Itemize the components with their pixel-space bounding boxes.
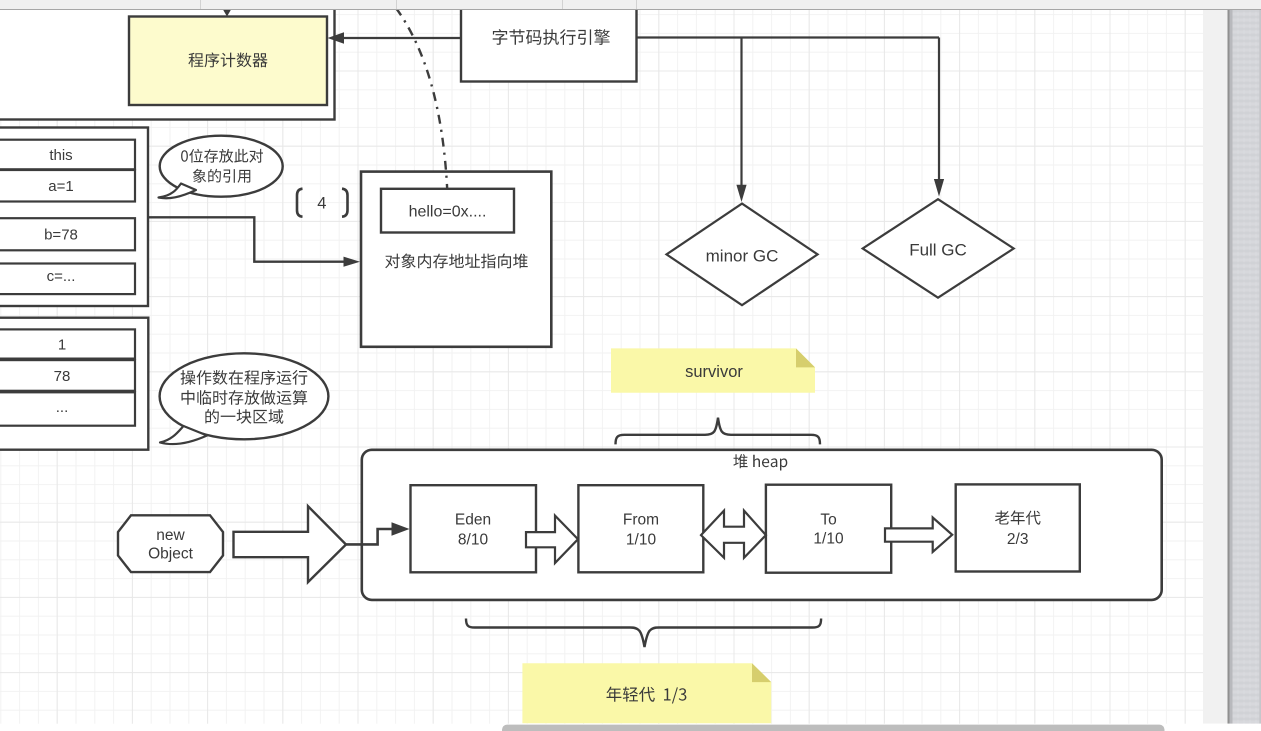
svg-text:b=78: b=78 — [44, 227, 78, 244]
svg-text:survivor: survivor — [685, 363, 743, 381]
svg-text:new: new — [156, 527, 185, 544]
svg-text:4: 4 — [317, 195, 326, 213]
object box 对象内存地址指向堆 — [361, 172, 551, 347]
wire: local variable b to object box (arrow right) — [148, 217, 361, 266]
svg-text:2/3: 2/3 — [1007, 531, 1029, 548]
svg-text:minor GC: minor GC — [706, 247, 779, 266]
svg-text:1/10: 1/10 — [626, 532, 657, 549]
stack frame outer box (top-left, partially off-screen) — [0, 0, 335, 120]
arrow from above into program counter box — [222, 0, 232, 17]
row this — [0, 140, 135, 170]
svg-text:8/10: 8/10 — [458, 532, 489, 549]
Eden box — [411, 485, 537, 572]
bottom horizontal scrollbar thumb — [502, 725, 1165, 731]
wire: bytecode engine right branch to GC diamonds — [637, 38, 945, 203]
Full GC diamond — [863, 199, 1014, 298]
new Object octagon — [118, 515, 223, 572]
bottom scrollbar track row — [0, 724, 1261, 731]
program counter box 程序计数器 — [129, 17, 327, 106]
window edge line — [1228, 10, 1230, 724]
svg-text:Full GC: Full GC — [909, 241, 967, 260]
underbrace below heap (年轻代) — [466, 619, 821, 648]
row a=1 — [0, 170, 135, 202]
right scrollbar track — [1203, 10, 1228, 724]
wire: big arrow to Eden (arrow right) — [346, 522, 410, 544]
outer gray background (right) — [1230, 10, 1261, 724]
survivor sticky note — [611, 348, 815, 392]
speech bubble: 操作数在程序运行中临时存放做运算的一块区域 — [160, 353, 329, 444]
svg-text:a=1: a=1 — [48, 178, 73, 195]
svg-text:To: To — [820, 512, 836, 529]
bracket [ 4 ] — [297, 189, 348, 217]
svg-text:c=...: c=... — [47, 268, 76, 285]
minor GC diamond — [667, 204, 818, 306]
heap container box — [362, 450, 1162, 600]
big block arrow new Object to heap — [234, 506, 347, 582]
hello box — [381, 189, 514, 233]
svg-text:78: 78 — [54, 368, 71, 385]
年轻代 1/3 sticky note — [522, 663, 771, 723]
To box — [766, 485, 891, 573]
block arrow To to old generation — [885, 518, 952, 553]
speech bubble: 0位存放此对象的引用 — [159, 136, 283, 199]
svg-text:From: From — [623, 512, 659, 529]
svg-text:1/10: 1/10 — [813, 531, 844, 548]
local variable stack outer box — [0, 128, 148, 307]
operand stack outer box — [0, 318, 148, 450]
svg-text:1: 1 — [58, 337, 66, 354]
overbrace above From/To — [616, 418, 821, 445]
svg-text:...: ... — [56, 399, 69, 416]
From box — [578, 485, 703, 572]
svg-text:Object: Object — [148, 546, 193, 563]
svg-text:this: this — [49, 147, 72, 164]
svg-text:hello=0x....: hello=0x.... — [409, 204, 487, 221]
row 78 — [0, 360, 135, 391]
row 1 — [0, 329, 135, 358]
wire: bytecode engine to program counter (arrow left) — [328, 32, 462, 44]
old generation box 老年代 — [956, 484, 1080, 571]
row ... — [0, 392, 135, 425]
double block arrow From to To — [701, 511, 766, 558]
block arrow Eden to From — [526, 516, 578, 563]
dash-dot curve from top to hello box — [396, 8, 447, 189]
svg-text:Eden: Eden — [455, 512, 491, 529]
row b=78 — [0, 218, 135, 250]
bytecode engine box 字节码执行引擎 — [461, 3, 637, 82]
row c=... — [0, 264, 135, 295]
top toolbar strip — [0, 0, 1261, 10]
